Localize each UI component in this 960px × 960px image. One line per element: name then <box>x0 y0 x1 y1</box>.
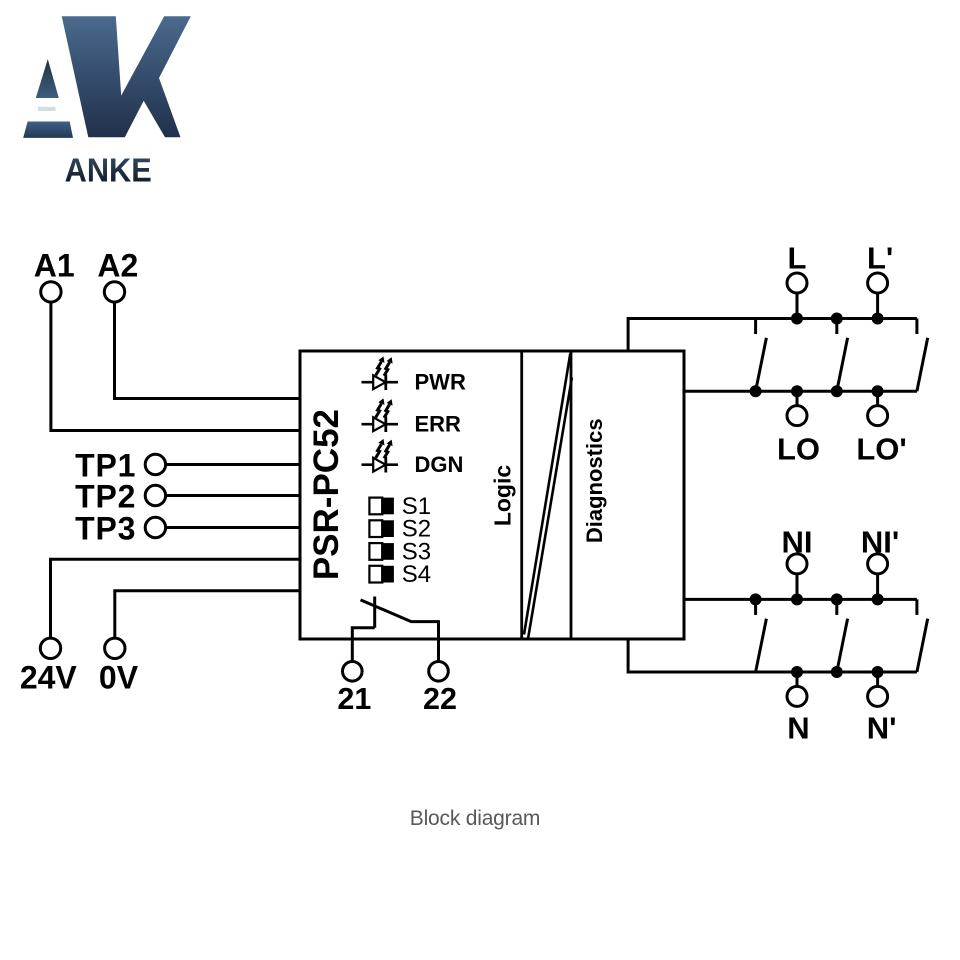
svg-text:LO': LO' <box>856 432 906 467</box>
svg-text:N': N' <box>867 710 897 745</box>
svg-text:24V: 24V <box>20 660 78 696</box>
svg-text:TP2: TP2 <box>75 478 136 514</box>
svg-text:NI: NI <box>782 525 813 560</box>
svg-text:21: 21 <box>337 682 371 716</box>
svg-text:22: 22 <box>423 682 457 716</box>
svg-text:A2: A2 <box>97 247 138 283</box>
svg-text:NI': NI' <box>861 525 899 560</box>
svg-text:L': L' <box>867 241 893 276</box>
svg-text:Diagnostics: Diagnostics <box>582 418 607 543</box>
svg-text:Block diagram: Block diagram <box>410 807 540 830</box>
svg-text:Logic: Logic <box>490 465 516 527</box>
svg-text:ERR: ERR <box>415 411 462 436</box>
svg-text:N: N <box>787 710 809 745</box>
svg-text:TP3: TP3 <box>75 510 136 546</box>
svg-text:LO: LO <box>777 432 820 467</box>
svg-text:PSR-PC52: PSR-PC52 <box>307 409 346 580</box>
svg-text:ANKE: ANKE <box>65 151 152 189</box>
svg-text:DGN: DGN <box>415 452 464 477</box>
svg-text:S4: S4 <box>402 561 431 588</box>
svg-text:L: L <box>788 241 807 276</box>
svg-text:A1: A1 <box>34 247 75 283</box>
svg-text:PWR: PWR <box>415 369 466 394</box>
svg-text:0V: 0V <box>99 660 139 696</box>
